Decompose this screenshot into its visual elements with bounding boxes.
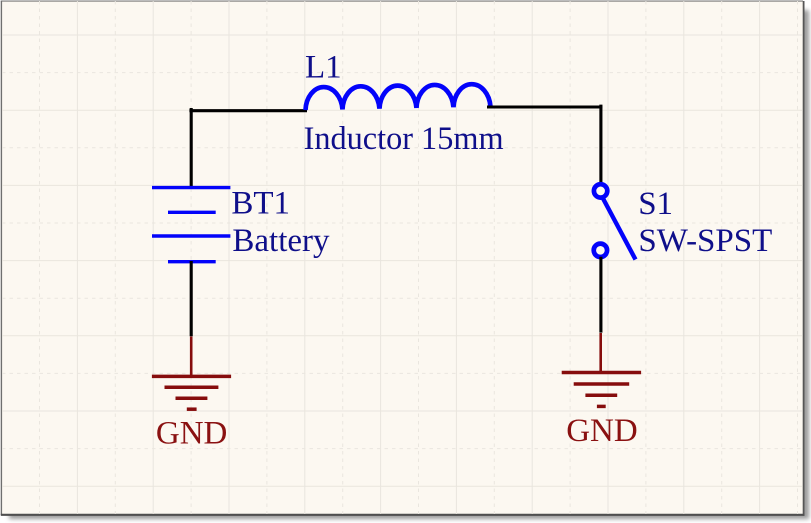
wire — [599, 257, 602, 333]
svg-text:BT1: BT1 — [231, 185, 290, 221]
svg-text:GND: GND — [156, 416, 228, 452]
inductor L1 — [305, 84, 490, 110]
wire — [487, 105, 602, 108]
battery BT1 — [152, 188, 230, 262]
switch S1 — [594, 184, 636, 259]
wire — [190, 261, 193, 336]
svg-text:Inductor 15mm: Inductor 15mm — [304, 121, 504, 157]
svg-text:L1: L1 — [305, 50, 342, 86]
svg-text:GND: GND — [566, 413, 638, 449]
svg-text:Battery: Battery — [232, 223, 330, 259]
wire — [599, 105, 602, 184]
wire — [190, 108, 193, 187]
svg-text:SW-SPST: SW-SPST — [638, 223, 772, 259]
ground GND left — [152, 337, 231, 410]
wire — [189, 109, 307, 112]
svg-text:S1: S1 — [638, 186, 673, 222]
ground GND right — [562, 333, 641, 406]
